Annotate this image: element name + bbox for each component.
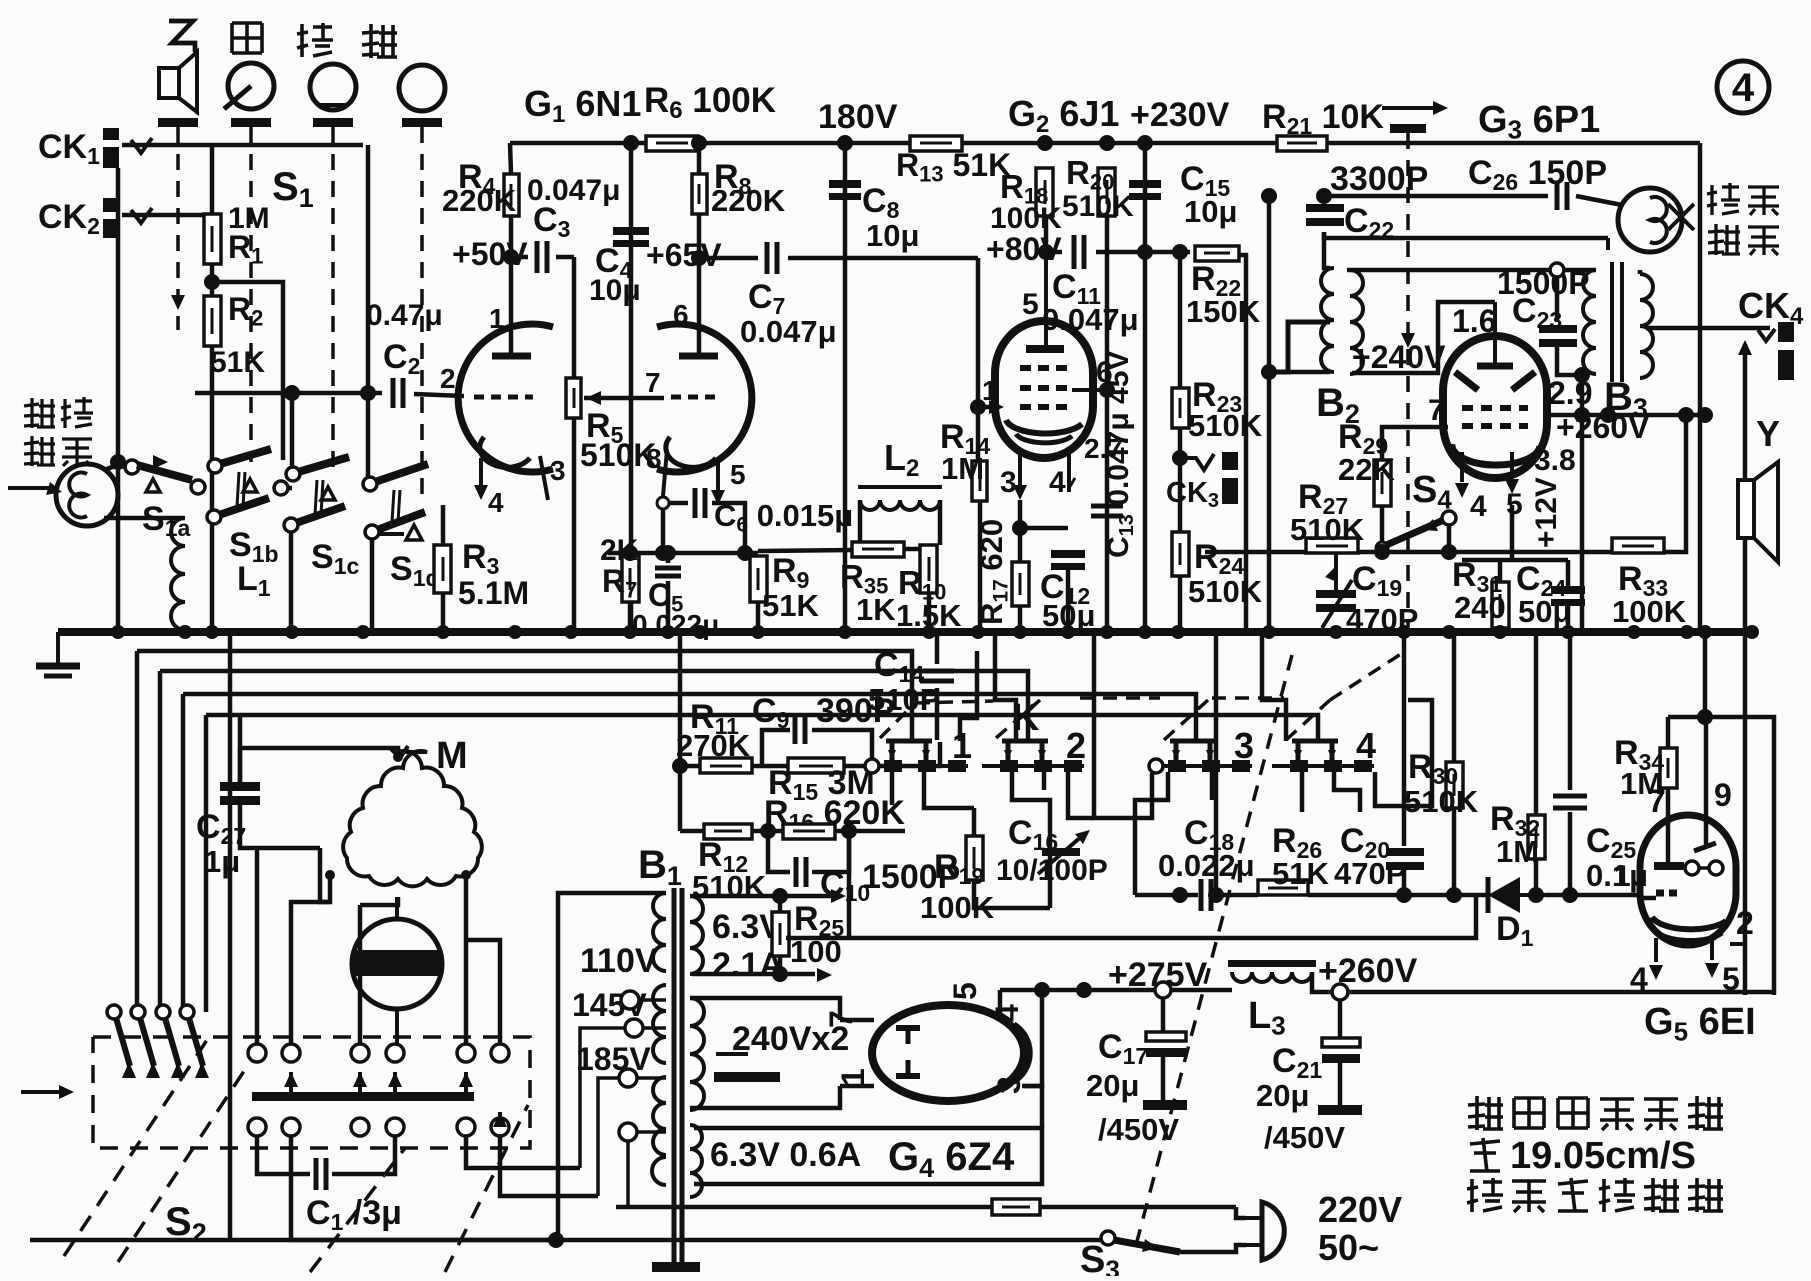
svg-text:150K: 150K xyxy=(1186,294,1261,329)
label R5 xyxy=(586,407,624,448)
pin 1 xyxy=(489,303,505,334)
label 150K xyxy=(1186,294,1261,329)
C5 stub xyxy=(666,553,671,563)
R32 col xyxy=(1534,632,1539,815)
rail left drop xyxy=(510,143,511,174)
mains plug xyxy=(1244,1202,1284,1260)
erase head xyxy=(1618,188,1694,252)
pin 2.9 G3 xyxy=(1548,375,1592,411)
R3 leads xyxy=(441,505,446,545)
C26 to head xyxy=(1576,196,1622,205)
G4 cathode wire xyxy=(998,990,1003,1016)
svg-text:4: 4 xyxy=(1732,66,1755,110)
capacitor C1 xyxy=(316,1158,326,1190)
svg-text:G5 6EI: G5 6EI xyxy=(1644,1001,1756,1047)
label C5 xyxy=(648,577,683,616)
svg-text:2: 2 xyxy=(440,363,456,394)
wire to C26 xyxy=(1324,194,1548,199)
relay contact 3 xyxy=(1149,725,1254,773)
tube G1 triode a xyxy=(458,324,553,500)
svg-text:/450V: /450V xyxy=(1264,1120,1345,1155)
label 2.1A xyxy=(712,946,784,984)
resistor R13 xyxy=(910,136,962,151)
dashed link key2 xyxy=(249,127,253,462)
svg-text:6.3V 0.6A: 6.3V 0.6A xyxy=(710,1136,861,1174)
dashed link from speaker key xyxy=(176,127,180,330)
C7 to G2 grid xyxy=(788,256,978,261)
C27 col xyxy=(238,715,243,782)
pin 4 G5 xyxy=(1630,961,1648,997)
pin 5 G4 xyxy=(947,982,983,1000)
svg-text:7: 7 xyxy=(1648,783,1666,819)
label 0.1u xyxy=(1586,858,1648,893)
arrow head wire xyxy=(153,455,168,469)
L3 out xyxy=(1312,972,1774,992)
vertical S1 left xyxy=(210,145,215,632)
HT center tap ground xyxy=(714,1054,780,1082)
resistor R33 xyxy=(1612,538,1664,553)
svg-text:20μ: 20μ xyxy=(1256,1078,1309,1113)
S2 dash diag 2 xyxy=(118,1062,250,1262)
tap wire last xyxy=(626,1141,630,1207)
S2 arrows lower xyxy=(493,1112,507,1127)
wire grid2 row xyxy=(584,396,664,401)
label C11 xyxy=(1052,268,1101,309)
dashed link key4 xyxy=(420,127,424,505)
row dots S4 xyxy=(1374,544,1457,560)
key knob 2 xyxy=(310,64,356,110)
label C16 xyxy=(1008,814,1058,855)
mains dots xyxy=(548,1232,564,1248)
R31 bot xyxy=(1498,628,1503,632)
junction 180V xyxy=(837,135,853,151)
svg-text:Y: Y xyxy=(1756,413,1780,454)
pin 8 xyxy=(646,443,662,474)
label R25 xyxy=(794,900,844,941)
C9 loop2 xyxy=(812,730,872,766)
label 470P C20 xyxy=(1334,856,1406,891)
B2 top line xyxy=(1347,268,1596,273)
dot 1216 xyxy=(1208,887,1224,903)
S1b feed xyxy=(290,393,295,467)
resistor R1 xyxy=(204,214,221,264)
label R1 xyxy=(228,229,263,268)
mech arrow top xyxy=(1382,101,1448,133)
resistor R15 xyxy=(788,758,844,773)
relay contact 1 xyxy=(865,725,972,773)
resistor R10 xyxy=(920,545,937,593)
svg-text:6: 6 xyxy=(673,299,689,330)
label 抹音磁头 xyxy=(1707,183,1779,255)
tube G1 triode b xyxy=(657,324,752,496)
motor lead 4b xyxy=(464,940,469,1046)
C23 drop xyxy=(1555,277,1560,322)
label C9 xyxy=(752,692,789,733)
transformer B2 winding left xyxy=(1321,268,1334,372)
R31 top xyxy=(1498,560,1503,582)
svg-text:C26 150P: C26 150P xyxy=(1468,154,1607,195)
svg-text:R17 620: R17 620 xyxy=(974,519,1012,625)
275v dots xyxy=(1034,982,1092,998)
maze drop d xyxy=(960,651,977,741)
label R12 xyxy=(698,836,748,877)
playback head xyxy=(8,464,118,526)
label 220V xyxy=(1318,1189,1402,1230)
capacitor C5 xyxy=(655,568,681,576)
label S1d xyxy=(390,550,440,591)
capacitor C7 xyxy=(767,242,777,274)
label R35 xyxy=(840,558,888,599)
dashed diag long xyxy=(1136,655,1292,1245)
osc left col xyxy=(1267,196,1272,632)
svg-text:1: 1 xyxy=(835,1068,871,1086)
label R22 xyxy=(1191,260,1241,301)
D1 to C25 xyxy=(1545,893,1640,898)
C4 column xyxy=(629,143,634,632)
label 470P C19 xyxy=(1346,602,1418,637)
B3 sec to CK4 xyxy=(1646,326,1770,331)
label 145V xyxy=(572,987,647,1023)
label C23 xyxy=(1512,292,1562,333)
R30 bot xyxy=(1452,808,1457,895)
resistor R19 xyxy=(966,836,983,880)
label 1M R14 xyxy=(941,451,984,486)
K dashed diag 2 xyxy=(996,700,1040,738)
R22 out xyxy=(1239,255,1246,632)
C1 wire xyxy=(257,1136,310,1174)
svg-text:R21 10K: R21 10K xyxy=(1262,98,1384,139)
contact1 drop b xyxy=(924,772,974,808)
K dashed diag 3 xyxy=(1164,700,1208,740)
wire 80V row xyxy=(1046,250,1062,255)
label R2 xyxy=(228,291,263,330)
label 510K R20 xyxy=(1062,190,1134,223)
R26 out xyxy=(1308,893,1486,898)
label CK4 xyxy=(1738,285,1804,330)
C23 bot xyxy=(1557,347,1582,375)
label C24 xyxy=(1516,560,1566,601)
transformer B2 winding right xyxy=(1350,270,1363,374)
transformer B3 core xyxy=(1612,262,1622,382)
label 10/100P xyxy=(996,854,1108,887)
S2 dashed box xyxy=(93,1037,530,1148)
label K xyxy=(1012,697,1040,739)
G4 plate wire xyxy=(840,1018,874,1023)
tap wire 145 xyxy=(580,1028,625,1168)
svg-text:3300P: 3300P xyxy=(1330,160,1428,198)
label 10u C15 xyxy=(1184,194,1237,229)
motor lead5 xyxy=(320,848,330,902)
resistor R24 xyxy=(1172,532,1189,576)
capacitor C27 xyxy=(220,782,260,805)
label CK1 xyxy=(38,128,100,169)
R23 col xyxy=(1178,255,1183,388)
label +240V xyxy=(1352,339,1446,375)
R35 wire2 xyxy=(904,547,929,552)
caption line2 xyxy=(1510,1135,1696,1177)
svg-text:20μ: 20μ xyxy=(1086,1068,1139,1103)
R32 bot xyxy=(1534,859,1539,895)
svg-text:510K: 510K xyxy=(692,869,767,904)
node 50V xyxy=(503,249,519,265)
transformer B1 core xyxy=(674,888,682,1262)
R8 bottom to plate xyxy=(697,214,702,356)
pin 1 G5 xyxy=(1614,860,1631,893)
pin 3 xyxy=(550,455,566,486)
label R29 xyxy=(1338,418,1388,459)
label 1500P C10 xyxy=(862,858,960,896)
jack CK2 lead xyxy=(122,213,212,218)
cath G3 row xyxy=(1462,558,1568,563)
pin 5 G3 xyxy=(1506,488,1523,521)
capacitor C19 trimmer xyxy=(1316,566,1356,628)
svg-text:7: 7 xyxy=(645,367,661,398)
label R13 51K xyxy=(896,147,1011,186)
key pad 4 xyxy=(402,118,442,127)
junction signal xyxy=(284,385,376,401)
label R16 620K xyxy=(764,794,905,835)
svg-text:10μ: 10μ xyxy=(866,218,919,253)
S2 lower terminals xyxy=(248,1118,509,1136)
label C19 xyxy=(1352,560,1402,601)
B1 primary top link xyxy=(558,893,666,1237)
mains line upper xyxy=(616,1205,1236,1210)
cath row xyxy=(608,551,758,556)
svg-text:3: 3 xyxy=(550,455,566,486)
K dashed h2 xyxy=(1080,696,1160,700)
C8 drop xyxy=(843,143,848,632)
pin 9 G5 xyxy=(1714,777,1732,813)
C20 col xyxy=(1402,632,1407,846)
capacitor C25 xyxy=(1553,796,1587,808)
G4 plate wire2 xyxy=(840,1084,874,1089)
r32 dot xyxy=(1528,887,1578,903)
svg-text:2: 2 xyxy=(1736,905,1754,941)
R14 bot xyxy=(978,501,983,632)
label S4 xyxy=(1412,469,1452,515)
C6 row xyxy=(669,501,688,506)
svg-text:240: 240 xyxy=(1454,590,1506,625)
0.6A to pin3 xyxy=(1024,1086,1042,1128)
contact3 drop b xyxy=(1210,772,1215,800)
label 6.3V xyxy=(712,908,782,946)
label R23 xyxy=(1192,376,1242,417)
long line D h xyxy=(206,715,1318,740)
C25 bot xyxy=(1568,812,1573,895)
label 185V xyxy=(576,1041,651,1077)
S2 blade 1 xyxy=(107,1005,136,1078)
resistor R8 xyxy=(692,174,707,214)
pin 5 G2 xyxy=(1022,288,1039,321)
svg-text:+12V: +12V xyxy=(1530,477,1563,548)
wire C22 bottom to head xyxy=(1324,232,1608,238)
label 51K R9 xyxy=(762,588,819,623)
S1d leg xyxy=(370,539,375,632)
junction 80V xyxy=(1038,244,1188,260)
svg-text:510K: 510K xyxy=(1188,408,1263,443)
label R31 xyxy=(1452,556,1502,597)
svg-text:3: 3 xyxy=(991,1076,1027,1094)
label 510K R24 xyxy=(1188,574,1263,609)
arrow grid G2 xyxy=(989,400,1004,414)
R29 bot xyxy=(1380,506,1385,548)
label 10u xyxy=(589,274,641,307)
label C2 xyxy=(383,338,420,379)
C15 drop xyxy=(1143,143,1148,255)
G3 grid wire xyxy=(1382,427,1448,460)
C17 gnd xyxy=(1143,1100,1187,1110)
R18 drop xyxy=(1044,216,1049,252)
terminal 260V xyxy=(1332,984,1348,1000)
B2 left bottom xyxy=(1288,370,1330,375)
C3 to R5 xyxy=(556,255,574,260)
R15 right xyxy=(844,742,940,766)
label +260V G3 xyxy=(1556,409,1650,445)
motor M xyxy=(325,746,482,886)
resistor R14 xyxy=(972,461,987,501)
B2 right bottom staircase xyxy=(1352,302,1495,373)
tube G3 xyxy=(1443,302,1547,482)
svg-text:5.1M: 5.1M xyxy=(458,575,529,611)
arrow on speaker link xyxy=(171,295,185,310)
resistor R30 xyxy=(1446,762,1463,808)
label G5 6EI xyxy=(1644,1001,1756,1047)
switch S1d xyxy=(363,464,428,539)
label R18 xyxy=(1000,168,1048,209)
motor frame xyxy=(255,848,260,1046)
capacitor C22 xyxy=(1306,204,1344,226)
pin 5 G5 xyxy=(1722,961,1740,997)
R11 to loop xyxy=(752,764,790,769)
label R6 100K xyxy=(644,81,776,124)
flywheel xyxy=(352,897,442,1046)
pin 6 xyxy=(673,299,689,330)
svg-text:51K: 51K xyxy=(210,346,265,379)
C17 col2 xyxy=(1161,1057,1166,1100)
speaker key icon xyxy=(159,52,197,112)
contact4 drop b xyxy=(1334,772,1360,812)
key knob 3 xyxy=(399,65,445,111)
ground symbol left xyxy=(36,632,80,676)
grid node xyxy=(970,399,986,415)
G1b pin5 arrow xyxy=(711,490,725,505)
B1 HT winding xyxy=(690,998,704,1110)
term wire3 xyxy=(637,1076,666,1080)
label C18 xyxy=(1184,814,1234,855)
svg-text:510K: 510K xyxy=(1188,574,1263,609)
term wire2 xyxy=(643,1026,666,1030)
L1 bottom lead xyxy=(183,630,188,632)
contact3 to C18 xyxy=(1135,772,1168,895)
node b3 drop xyxy=(1574,367,1590,423)
label 0.022u C18 xyxy=(1158,848,1255,883)
C25 col xyxy=(1568,632,1573,790)
svg-text:10/100P: 10/100P xyxy=(996,854,1108,887)
pin 3 G2 xyxy=(1000,466,1017,499)
term wire1 xyxy=(640,998,666,1002)
R19 bot xyxy=(974,880,1050,908)
svg-text:4: 4 xyxy=(989,1004,1025,1022)
label C20 xyxy=(1340,822,1390,863)
rail right drop xyxy=(1698,143,1703,632)
label C22 xyxy=(1344,202,1394,243)
label C7 xyxy=(748,278,785,319)
K dashed diag 1 xyxy=(880,706,912,738)
label R3 xyxy=(462,538,499,579)
C6 out xyxy=(712,503,745,553)
L1 top lead xyxy=(104,516,185,521)
signal wire to G1 grid xyxy=(195,391,382,396)
C27 bot xyxy=(240,805,320,848)
label C15 xyxy=(1180,160,1230,201)
label R30 xyxy=(1408,748,1458,789)
svg-text:4: 4 xyxy=(1356,725,1376,766)
junction R1 tap xyxy=(204,274,220,290)
jack CK4 xyxy=(1758,322,1797,380)
R12 row xyxy=(680,829,704,834)
speaker Y xyxy=(1738,462,1778,562)
label 50u C24 xyxy=(1518,594,1571,629)
S2 blade 3 xyxy=(156,1005,185,1078)
fuse to plug xyxy=(1236,1207,1246,1218)
L2 left lead xyxy=(858,500,863,545)
K dashed h3 xyxy=(1212,696,1284,700)
r30 dot xyxy=(1446,887,1462,903)
label 0.047u xyxy=(527,174,620,207)
caption line1 线路表示带速 xyxy=(1468,1096,1723,1130)
plate feed G1a xyxy=(509,257,514,356)
mid col xyxy=(678,632,683,831)
transformer B3 winding right xyxy=(1640,274,1653,378)
label 510K R23 xyxy=(1188,408,1263,443)
svg-text:220K: 220K xyxy=(442,183,517,218)
label 5.1M xyxy=(458,575,529,611)
label B1 xyxy=(638,843,682,891)
S1 col drop xyxy=(228,632,233,1240)
label 100K R33 xyxy=(1612,594,1687,629)
label 220K xyxy=(442,183,517,218)
arrow heater2 xyxy=(817,968,832,982)
left mech arrow xyxy=(21,1085,74,1099)
label 50~ xyxy=(1318,1227,1379,1268)
S2 dash diag 4 xyxy=(445,1105,528,1272)
svg-text:220K: 220K xyxy=(711,183,786,218)
label 240Vx2 xyxy=(732,1020,849,1058)
label 1K xyxy=(856,592,896,627)
label 0.022u xyxy=(632,609,719,640)
svg-text:50μ: 50μ xyxy=(1518,594,1571,629)
label C4 xyxy=(595,242,633,283)
R34 wire top xyxy=(1668,717,1774,995)
pin 4 G2 xyxy=(1049,466,1066,499)
label D1 xyxy=(1496,910,1534,951)
svg-text:510K: 510K xyxy=(1062,190,1134,223)
svg-text:0.047μ: 0.047μ xyxy=(740,314,837,349)
label 51K xyxy=(210,346,265,379)
G4 pin4 wire xyxy=(1022,990,1042,1086)
pin 7 G4 xyxy=(823,1010,859,1028)
resistor R11 xyxy=(700,758,752,773)
cath G2 wire xyxy=(1020,500,1068,528)
svg-text:+260V: +260V xyxy=(1318,952,1418,990)
c18 dots xyxy=(1172,887,1188,903)
label 1u xyxy=(204,844,240,879)
bus junctions xyxy=(111,625,1759,639)
tube G5 xyxy=(1640,815,1745,962)
tube G2 xyxy=(995,252,1107,492)
capacitor C16 trimmer xyxy=(1038,830,1090,874)
tap wire 185 xyxy=(598,1078,619,1196)
